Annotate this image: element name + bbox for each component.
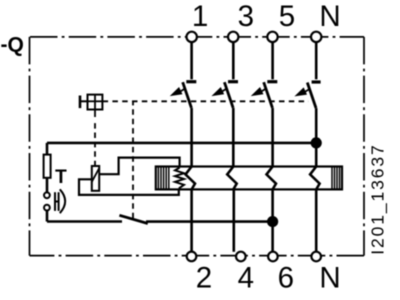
svg-text:2: 2	[196, 262, 212, 295]
wire test bottom right	[146, 220, 273, 223]
wire pole5 mid	[271, 108, 274, 167]
contact S1 fixed bar	[186, 80, 196, 83]
wire poleN top	[315, 42, 318, 79]
mechanism linkage dashed horizontal	[103, 100, 309, 102]
svg-text:-Q: -Q	[1, 33, 24, 56]
contact SN arrow	[304, 89, 310, 93]
contact SN blade	[307, 83, 316, 109]
wire poleN mid	[315, 108, 318, 167]
pole5 primary zigzag through CT	[267, 167, 277, 190]
trip coil diagonal	[92, 168, 99, 182]
mechanism handle bar	[79, 96, 82, 109]
svg-text:5: 5	[279, 0, 295, 33]
svg-text:6: 6	[278, 262, 294, 295]
CT core	[156, 167, 342, 190]
mechanism link down solid stub	[94, 110, 96, 118]
svg-text:1: 1	[192, 0, 208, 33]
CT core right hatch	[332, 167, 340, 190]
wire neutral tap horizontal	[47, 142, 316, 145]
wire test bottom left	[47, 220, 122, 223]
wire resistor to button	[46, 178, 49, 193]
wire pole3 bottom	[233, 189, 236, 251]
mechanism handle stem	[80, 100, 88, 102]
terminal circle N bottom	[311, 252, 321, 262]
wire pole3 top	[232, 42, 235, 79]
contact S3 blade	[224, 82, 233, 108]
contact S3 fixed bar	[228, 80, 238, 83]
wire pole5 bottom	[271, 189, 274, 251]
wire pole3 mid	[232, 108, 235, 167]
mechanism box	[88, 95, 103, 110]
secondary winding zigzag	[175, 168, 184, 189]
svg-text:I201_13637: I201_13637	[367, 143, 388, 254]
wire pole5 top	[271, 42, 274, 79]
svg-text:4: 4	[238, 262, 254, 295]
mechanism link to test contact dashed	[132, 101, 134, 218]
test aux contact blade	[119, 215, 147, 223]
terminal circle 3 top	[228, 32, 238, 42]
mechanism link to trip coil dashed	[94, 120, 96, 166]
contact SN fixed bar	[312, 80, 321, 83]
terminal circle 1 top	[187, 32, 197, 42]
test button contact bottom	[44, 205, 50, 211]
contact S5 blade	[264, 82, 273, 108]
device boundary dash-dot frame	[30, 37, 365, 256]
poleN primary zigzag through CT	[310, 167, 320, 190]
terminal circle 4 bottom	[236, 252, 246, 262]
svg-text:N: N	[319, 262, 340, 295]
test button contact top	[44, 192, 50, 198]
wire pole1 mid	[190, 108, 193, 167]
terminal circle 6 bottom	[268, 252, 278, 262]
test resistor wire top	[46, 143, 49, 155]
svg-text:T: T	[55, 167, 67, 188]
pole3 primary zigzag through CT	[227, 167, 237, 190]
contact S5 arrow	[260, 88, 266, 92]
wire pole1 top	[190, 42, 193, 79]
svg-text:N: N	[319, 0, 340, 33]
junction dot on N	[311, 137, 322, 148]
wire pole1 bottom	[190, 189, 193, 251]
pole1 primary zigzag through CT	[186, 167, 196, 190]
wire coil left	[79, 179, 179, 195]
mechanism box cross	[94, 95, 96, 110]
contact S1 blade	[183, 82, 192, 108]
junction dot on pole5	[267, 216, 278, 227]
wire button down	[46, 211, 49, 222]
terminal circle 5 top	[267, 32, 277, 42]
wire coil right to winding	[99, 158, 179, 175]
contact S5 fixed bar	[267, 80, 277, 83]
wire poleN bottom	[315, 189, 318, 251]
contact S1 arrow	[179, 88, 185, 92]
terminal circle 2 bottom	[187, 252, 197, 262]
trip coil K	[92, 166, 99, 191]
test resistor R	[44, 155, 51, 178]
contact S3 arrow	[221, 88, 227, 92]
terminal circle N top	[311, 32, 321, 42]
test button actuator	[54, 192, 56, 211]
CT core left hatch	[158, 167, 168, 190]
svg-text:3: 3	[238, 0, 254, 33]
